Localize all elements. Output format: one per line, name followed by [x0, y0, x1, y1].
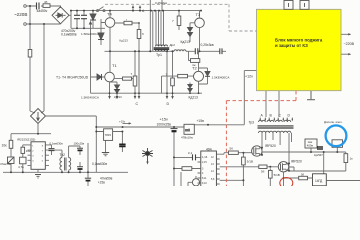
- svg-text:1.5KE400CA: 1.5KE400CA: [81, 32, 100, 36]
- svg-text:Др2: Др2: [170, 43, 176, 47]
- svg-text:10к: 10к: [26, 149, 31, 153]
- svg-text:IRF520: IRF520: [291, 160, 302, 164]
- svg-text:1,16: 1,16: [202, 155, 208, 159]
- svg-text:+15в: +15в: [197, 119, 205, 123]
- svg-text:4б: 4б: [44, 0, 48, 4]
- svg-text:Т3: Т3: [196, 12, 201, 17]
- svg-text:Блок мягкого поджига: Блок мягкого поджига: [275, 37, 323, 42]
- svg-text:Тр1: Тр1: [156, 53, 162, 57]
- svg-text:Тр2: Тр2: [60, 153, 66, 157]
- svg-text:5/1В: 5/1В: [274, 173, 280, 177]
- svg-text:494: 494: [206, 147, 212, 151]
- svg-text:+15v: +15v: [160, 117, 168, 121]
- svg-text:1.5KE400CA: 1.5KE400CA: [212, 76, 231, 80]
- svg-text:+15в: +15в: [98, 181, 105, 185]
- svg-text:5б: 5б: [261, 170, 265, 174]
- svg-text:мв2: мв2: [185, 129, 190, 132]
- svg-text:1.5KE400CA: 1.5KE400CA: [81, 96, 100, 100]
- svg-text:Кд213: Кд213: [120, 39, 129, 43]
- svg-text:+15v: +15v: [119, 120, 126, 124]
- svg-text:10к: 10к: [2, 144, 8, 148]
- svg-text:С: С: [136, 102, 139, 106]
- svg-text:14ГД: 14ГД: [315, 179, 323, 183]
- svg-text:Кд213: Кд213: [114, 95, 122, 99]
- svg-text:1000х25в: 1000х25в: [157, 122, 172, 126]
- svg-text:7815: 7815: [105, 133, 112, 137]
- svg-text:4,7н: 4,7н: [18, 165, 24, 169]
- svg-text:0,1мк680в: 0,1мк680в: [61, 32, 77, 36]
- svg-text:0,1мк630в: 0,1мк630в: [92, 162, 107, 166]
- svg-text:9,10: 9,10: [202, 182, 207, 185]
- svg-text:0,25х3кв: 0,25х3кв: [201, 43, 214, 47]
- svg-text:Т1- Т4 IRG4PC50UD: Т1- Т4 IRG4PC50UD: [56, 76, 89, 80]
- svg-text:Дополн. изол.: Дополн. изол.: [324, 120, 343, 124]
- svg-text:47мк16в: 47мк16в: [0, 162, 11, 166]
- svg-text:5/1В: 5/1В: [247, 159, 253, 163]
- svg-text:5б: 5б: [301, 173, 305, 177]
- svg-text:Т1: Т1: [112, 63, 117, 68]
- svg-text:Т2: Т2: [192, 66, 197, 71]
- svg-text:400в: 400в: [307, 144, 314, 148]
- svg-text:г: г: [126, 18, 127, 22]
- svg-text:Кд213: Кд213: [181, 40, 191, 44]
- svg-text:4а450v: 4а450v: [37, 9, 48, 13]
- svg-text:47Вх10w: 47Вх10w: [181, 136, 194, 140]
- svg-text:~220В: ~220В: [344, 42, 355, 46]
- svg-text:5б: 5б: [230, 147, 234, 151]
- svg-text:IR2153(2155): IR2153(2155): [17, 138, 35, 142]
- svg-text:К,1: К,1: [188, 151, 193, 155]
- svg-text:Кд2997: Кд2997: [314, 153, 323, 157]
- svg-text:Тр3: Тр3: [249, 121, 255, 125]
- svg-text:б: б: [142, 32, 144, 36]
- svg-text:0,25х2кв: 0,25х2кв: [155, 1, 167, 5]
- svg-text:~220В: ~220В: [14, 12, 27, 17]
- svg-text:0,1мк630в: 0,1мк630в: [50, 141, 64, 145]
- svg-text:и защиты от КЗ: и защиты от КЗ: [275, 43, 308, 48]
- svg-text:8,11: 8,11: [202, 177, 207, 180]
- svg-text:IRF520: IRF520: [265, 144, 276, 148]
- svg-text:+12v: +12v: [245, 75, 253, 79]
- svg-text:Т4: Т4: [107, 12, 112, 17]
- svg-text:47мк50в: 47мк50в: [100, 177, 113, 181]
- svg-text:Кд213: Кд213: [189, 96, 199, 100]
- svg-text:2,15: 2,15: [202, 161, 207, 164]
- svg-text:D: D: [167, 102, 170, 106]
- svg-text:100х25в: 100х25в: [74, 141, 85, 145]
